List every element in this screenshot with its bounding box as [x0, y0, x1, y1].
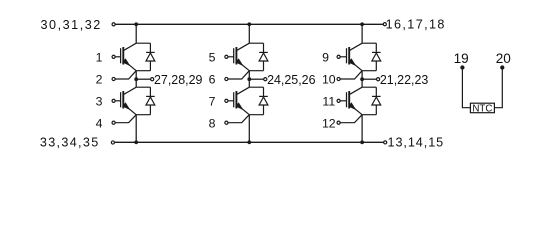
IGBT T1 — [121, 43, 137, 70]
wire pin 2 to emitter node — [115, 71, 136, 79]
wire emitter T6 to bottom rail — [361, 115, 363, 143]
node: phase output junction leg 2 — [247, 77, 251, 81]
wire emitter T4 to bottom rail — [248, 115, 250, 143]
svg-text:2: 2 — [96, 73, 103, 87]
wire collector node to diode D4 cathode — [249, 86, 263, 88]
svg-text:6: 6 — [209, 73, 216, 87]
svg-text:19: 19 — [454, 51, 469, 66]
wire emitter node to diode D6 anode — [362, 114, 376, 116]
phase output terminal 27,28,29 — [151, 78, 154, 81]
node: phase output junction leg 1 — [134, 77, 138, 81]
svg-text:13,14,15: 13,14,15 — [388, 136, 445, 150]
svg-text:33,34,35: 33,34,35 — [40, 136, 100, 150]
DC+ terminal right 16,17,18 — [383, 23, 386, 26]
pin 6 terminal (aux emitter) — [225, 77, 228, 80]
wire pin 4 to emitter node — [115, 115, 136, 123]
freewheel diode D2 — [146, 87, 155, 115]
wire emitter node to diode D1 anode — [136, 70, 150, 72]
svg-text:16,17,18: 16,17,18 — [386, 17, 446, 31]
svg-text:NTC: NTC — [472, 103, 492, 114]
DC- terminal right 13,14,15 — [384, 141, 387, 144]
node: top rail junction leg 2 — [247, 22, 251, 26]
IGBT T5 — [347, 43, 363, 70]
svg-text:10: 10 — [322, 73, 336, 87]
DC+ bus wire (top rail) — [116, 23, 384, 25]
pin 10 terminal (aux emitter) — [337, 77, 340, 80]
DC+ terminal left 30,31,32 — [112, 23, 115, 26]
svg-text:9: 9 — [322, 51, 329, 65]
node pin 20 — [500, 65, 504, 69]
svg-text:5: 5 — [209, 51, 216, 65]
svg-text:30,31,32: 30,31,32 — [41, 18, 102, 32]
node: bottom rail junction leg 1 — [134, 140, 138, 144]
freewheel diode D6 — [372, 87, 381, 115]
wire pin 10 to emitter node — [340, 71, 362, 79]
pin 5 terminal (gate) — [225, 55, 228, 58]
freewheel diode D1 — [146, 43, 155, 70]
wire emitter T5 to collector node T6 (phase node) — [361, 71, 363, 88]
IGBT T4 — [234, 87, 250, 115]
wire pin 9 to gate — [340, 56, 346, 58]
node: top rail junction leg 1 — [134, 22, 138, 26]
svg-text:4: 4 — [96, 116, 103, 130]
pin 7 terminal (gate) — [225, 99, 228, 102]
wire top rail to collector node T5 — [361, 24, 363, 43]
wire collector node to diode D5 cathode — [362, 42, 376, 44]
pin 9 terminal (gate) — [337, 55, 340, 58]
node pin 19 — [460, 65, 464, 69]
phase output terminal 24,25,26 — [264, 78, 267, 81]
node: bottom rail junction leg 2 — [247, 140, 251, 144]
pin 8 terminal (emitter) — [225, 121, 228, 124]
pin 4 terminal (emitter) — [112, 121, 115, 124]
wire phase node to output terminal — [136, 78, 151, 80]
freewheel diode D5 — [372, 43, 381, 70]
IGBT T2 — [121, 87, 137, 115]
node: phase output junction leg 3 — [360, 77, 364, 81]
node: top rail junction leg 3 — [360, 22, 364, 26]
freewheel diode D4 — [259, 87, 268, 115]
pin 2 terminal (aux emitter) — [112, 77, 115, 80]
wire pin 6 to emitter node — [228, 71, 249, 79]
wire emitter T1 to collector node T2 (phase node) — [135, 71, 137, 88]
svg-text:8: 8 — [209, 116, 216, 130]
svg-text:27,28,29: 27,28,29 — [154, 73, 202, 87]
phase output terminal 21,22,23 — [377, 78, 380, 81]
svg-text:20: 20 — [496, 51, 512, 66]
svg-text:24,25,26: 24,25,26 — [267, 73, 315, 87]
wire pin 8 to emitter node — [228, 115, 249, 123]
wire emitter T2 to bottom rail — [135, 115, 137, 143]
wire emitter T3 to collector node T4 (phase node) — [248, 71, 250, 88]
DC- bus wire (bottom rail) — [115, 141, 384, 143]
svg-text:21,22,23: 21,22,23 — [380, 73, 428, 87]
wire emitter node to diode D5 anode — [362, 70, 376, 72]
IGBT T3 — [234, 43, 250, 70]
wire collector node to diode D1 cathode — [136, 42, 150, 44]
IGBT T6 — [347, 87, 363, 115]
DC- terminal left 33,34,35 — [111, 141, 114, 144]
wire collector node to diode D2 cathode — [136, 86, 150, 88]
svg-text:12: 12 — [322, 116, 336, 130]
wire pin 3 to gate — [115, 100, 121, 102]
wire pin 1 to gate — [115, 56, 121, 58]
wire phase node to output terminal — [362, 78, 377, 80]
wire pin 20 to NTC — [494, 68, 502, 108]
wire pin 19 to NTC — [462, 68, 470, 108]
svg-text:3: 3 — [96, 95, 103, 109]
pin 12 terminal (emitter) — [337, 121, 340, 124]
node: bottom rail junction leg 3 — [360, 140, 364, 144]
wire pin 7 to gate — [228, 100, 234, 102]
wire pin 12 to emitter node — [340, 115, 362, 123]
svg-text:1: 1 — [96, 51, 103, 65]
freewheel diode D3 — [259, 43, 268, 70]
pin 3 terminal (gate) — [112, 99, 115, 102]
NTC thermistor R1 — [470, 103, 494, 114]
wire top rail to collector node T1 — [135, 24, 137, 43]
wire collector node to diode D3 cathode — [249, 42, 263, 44]
wire emitter node to diode D2 anode — [136, 114, 150, 116]
wire pin 11 to gate — [340, 100, 346, 102]
pin 11 terminal (gate) — [337, 99, 340, 102]
pin 1 terminal (gate) — [112, 55, 115, 58]
svg-text:7: 7 — [209, 95, 216, 109]
svg-text:11: 11 — [322, 95, 335, 109]
wire phase node to output terminal — [249, 78, 263, 80]
wire emitter node to diode D3 anode — [249, 70, 263, 72]
wire emitter node to diode D4 anode — [249, 114, 263, 116]
wire collector node to diode D6 cathode — [362, 86, 376, 88]
wire top rail to collector node T3 — [248, 24, 250, 43]
wire pin 5 to gate — [228, 56, 234, 58]
